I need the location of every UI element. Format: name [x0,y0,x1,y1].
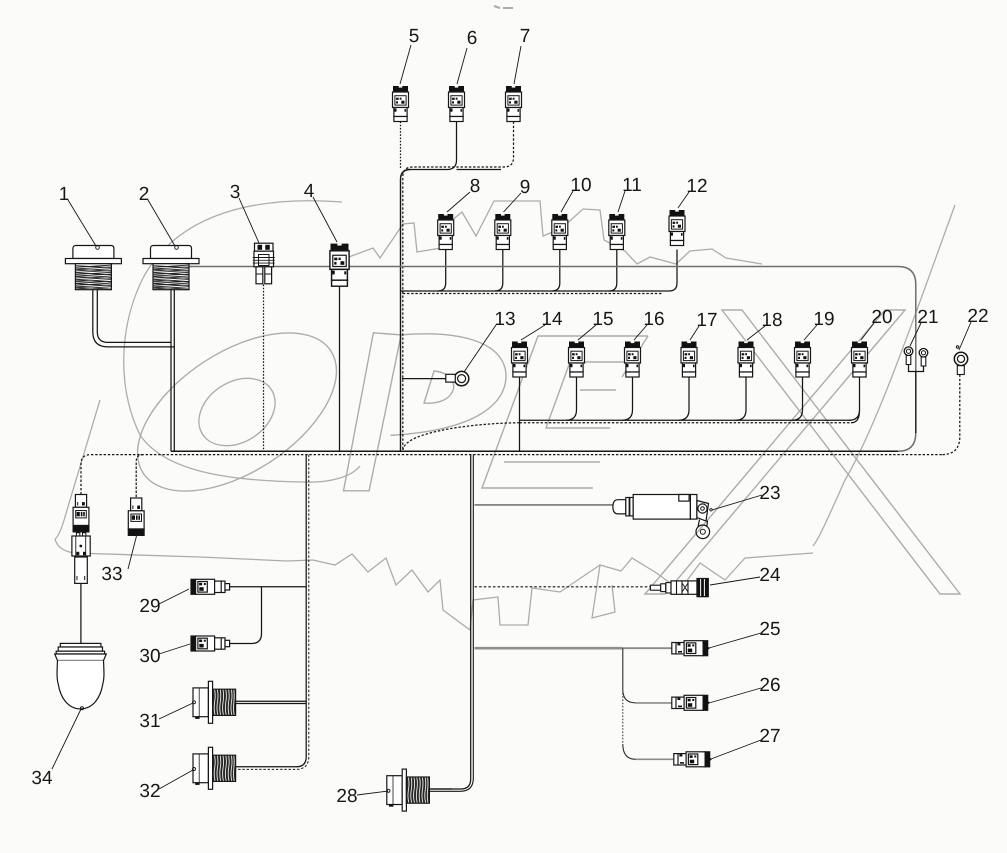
bullet connector 24 [650,579,708,597]
wire 30 riser [227,587,262,644]
svg-text:34: 34 [31,768,53,789]
leader line 11 [618,191,625,212]
right lower trunk [430,455,471,789]
leader line 27 [711,740,761,759]
wire connector17 drop [679,378,690,421]
leader line 15 [578,325,596,340]
wire ring22 drop (dashed) [942,375,960,455]
wire across to 26 [636,702,672,704]
harness line to right edge [190,267,916,452]
wire connector6 drop [411,122,502,170]
svg-text:19: 19 [813,309,834,330]
main bus dashed [81,455,942,495]
wire connector7 drop (dashed) [413,122,514,168]
leader line 25 [709,633,761,648]
round connector 32 [193,747,236,789]
svg-text:16: 16 [643,309,664,330]
leader line 16 [634,325,647,340]
wire comp2 pair to bus [171,288,174,451]
wire curve to 27 [623,744,636,759]
connector 9 [495,214,511,250]
svg-text:3: 3 [230,182,241,203]
leader line 22 [959,322,971,350]
leader line 33 [128,534,137,569]
machine outline bottom gear teeth [592,553,813,618]
dome lamp 34 [55,643,107,709]
connector 11 [609,214,625,250]
connector 6 [449,86,465,122]
leader line 18 [747,326,765,340]
svg-text:15: 15 [592,309,613,330]
wire connector12 drop [669,250,677,292]
svg-text:9: 9 [520,177,531,198]
wire connector4 drop [339,287,341,452]
leader line 13 [464,325,496,372]
leader line 32 [159,768,196,790]
leader line 5 [400,45,411,84]
wire connector15 drop [566,378,577,421]
connector 7 [506,86,522,122]
svg-text:12: 12 [686,176,707,197]
main bus solid [171,450,898,452]
right lower trunk second [430,455,474,792]
svg-text:29: 29 [139,596,160,617]
actuator 23 [613,495,710,539]
wire comp1 pair [93,288,175,347]
connector 1 [65,246,121,290]
connector 30 [191,636,230,651]
leader line 17 [690,326,699,340]
leader line 3 [239,198,259,243]
bundle 8-12 dashed [403,293,662,295]
machine outline left wheel arc [124,201,360,482]
branch wire to 24 (dashed) [475,586,651,588]
wire connector18 drop [736,378,747,421]
svg-text:17: 17 [696,310,717,331]
wire connector5 drop (dotted) [400,122,402,170]
leader line 31 [159,701,196,719]
wire connector16 drop [622,378,633,421]
connector 10 [552,214,568,250]
watermark letter E [482,336,648,488]
ring terminal 22 [954,346,967,375]
leader line 23 [710,495,762,511]
wire ring13 to trunk [402,378,446,380]
wire ring21 stems [909,365,924,433]
connector 29 [191,579,230,594]
watermark letter X [722,310,960,594]
machine outline left diagonal [55,400,100,539]
connector A left [73,495,89,532]
small gray mark top [494,6,513,8]
connector 8 [438,214,454,250]
svg-text:33: 33 [101,564,122,585]
mating pair below A [72,533,90,584]
svg-text:5: 5 [409,26,420,47]
leader line 26 [709,688,761,703]
svg-text:18: 18 [761,310,782,331]
svg-text:4: 4 [304,181,315,202]
connector 18 [738,342,754,378]
leader line 21 [910,323,921,346]
svg-text:10: 10 [570,175,591,196]
connector 4 [330,244,349,287]
leader line 6 [457,48,467,84]
svg-text:31: 31 [139,711,160,732]
leader line 1 [68,200,99,249]
wire connector10 drop [552,250,560,292]
connector 14 [512,342,528,378]
watermark letter P [344,333,402,491]
svg-text:13: 13 [494,309,515,330]
connector 25 [672,641,710,656]
wire connector20 drop [849,378,860,423]
svg-text:8: 8 [470,176,481,197]
bundle 14-20 solid [520,419,852,421]
wire 28 to trunk [430,788,452,790]
svg-text:24: 24 [759,565,781,586]
connector 20 [852,342,868,378]
ring terminals 21 [904,347,928,366]
bundle 8-12 solid [401,290,670,292]
svg-text:26: 26 [759,675,780,696]
wire connector3 drop (dashed) [263,285,265,452]
wire conn A drop to pair [80,583,82,643]
leader line 2 [148,200,178,249]
leader line 4 [313,197,337,242]
svg-text:28: 28 [336,786,357,807]
round connector 28 [387,769,430,811]
svg-text:22: 22 [967,306,988,327]
machine outline right diagonal [813,205,955,546]
connector 5 [393,86,409,122]
wire connector14 drop to bus [519,378,521,452]
wire connector8 drop [438,250,446,292]
leader line 29 [159,589,189,604]
wire bus to connector33 [136,455,143,498]
left lower trunk dashed [233,455,309,770]
connector 19 [795,342,811,378]
connector 17 [681,342,697,378]
connector 2 [143,246,199,290]
connector 3 [253,243,275,284]
connector 15 [569,342,585,378]
svg-text:14: 14 [541,309,563,330]
wire connector19 drop [792,378,803,421]
leader line 9 [504,193,522,212]
wire 31 to trunk [233,701,306,703]
wire connector9 drop [495,250,503,292]
wire dotted drop to 27 [622,693,624,744]
leader line 34 [52,709,81,769]
connector 12 [669,210,685,246]
bundle 14-20 dashed [403,423,851,450]
svg-text:32: 32 [139,781,160,802]
leader line 12 [678,192,689,208]
leader line 8 [447,192,470,212]
leader line 28 [357,789,390,795]
wire down to 26 [623,648,636,703]
machine outline top gear teeth [330,201,762,264]
wire junction to 25 [623,647,672,649]
leader line 20 [861,323,874,340]
svg-text:27: 27 [759,726,780,747]
leader line 19 [804,325,817,340]
connector 27 [674,752,712,767]
svg-text:6: 6 [467,28,478,49]
branch wire to 23 [475,504,613,506]
connector 16 [625,342,641,378]
svg-text:23: 23 [759,483,780,504]
trunk upper dashed companion [403,167,413,450]
svg-text:11: 11 [622,175,642,196]
svg-text:30: 30 [139,646,160,667]
watermark letter O [110,301,363,524]
svg-text:2: 2 [139,184,150,205]
leader line 14 [521,325,545,340]
svg-text:20: 20 [871,307,892,328]
wire across to 27 [636,758,674,760]
machine outline lower-left ledge [55,539,287,561]
svg-text:21: 21 [917,307,938,328]
branch thick to 25 [475,647,623,650]
connector 26 [672,695,710,710]
leader line 10 [561,191,573,212]
svg-text:7: 7 [520,26,531,47]
leader line 7 [514,46,521,84]
svg-text:1: 1 [59,184,70,205]
ring terminal 13 [446,371,469,385]
round connector 31 [193,681,236,723]
wire connector11 drop [609,250,617,292]
left lower trunk [233,455,306,767]
svg-text:25: 25 [759,619,780,640]
leader line 30 [159,644,190,654]
wire 29 to trunk [227,586,306,588]
leader line 24 [710,577,760,585]
connector 33 [128,498,144,535]
trunk upper solid [401,170,411,452]
